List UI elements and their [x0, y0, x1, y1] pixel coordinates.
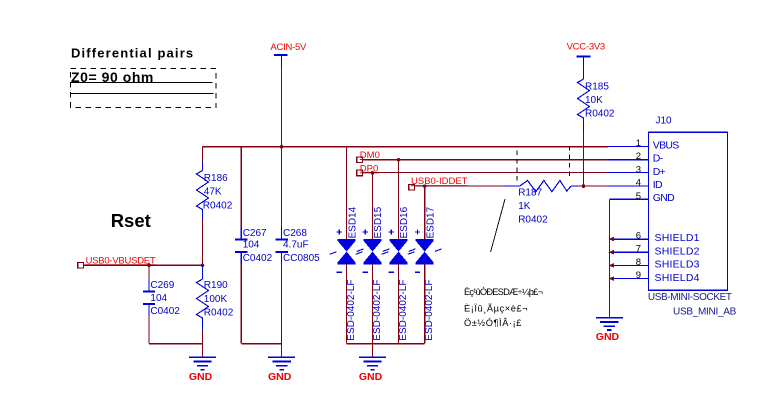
svg-text:104: 104 [243, 239, 260, 250]
ground G1 [189, 357, 216, 383]
ground G4 [596, 318, 623, 344]
svg-text:SHIELD4: SHIELD4 [655, 272, 700, 284]
legend label "Z0= 90 ohm" [71, 69, 154, 85]
junction C269 tee [147, 264, 151, 268]
capacitor C267 104 C0402 [235, 228, 273, 265]
diode ESD14 [330, 206, 364, 272]
wire VBUSDET line [84, 264, 203, 266]
svg-text:C0402: C0402 [243, 253, 273, 264]
svg-text:VBUS: VBUS [653, 139, 679, 151]
legend title "Differential pairs" [71, 45, 194, 60]
junction DM0/ESD16 [397, 158, 401, 162]
pin 8 stub [609, 264, 648, 266]
resistor R190 100K R0402 [197, 265, 234, 330]
svg-text:D+: D+ [653, 166, 666, 178]
differential-pair dashed mark 2 [569, 146, 571, 180]
wire R186 top [202, 147, 204, 161]
svg-text:USB0-VBUSDET: USB0-VBUSDET [86, 255, 156, 266]
svg-text:R190: R190 [204, 280, 228, 291]
svg-text:ESD-0402-LF: ESD-0402-LF [424, 280, 435, 341]
wire C269 drop [148, 265, 150, 279]
svg-text:ESD-0402-LF: ESD-0402-LF [346, 280, 357, 341]
pin 2 stub [608, 159, 649, 161]
svg-text:È¡Ïû¸Ãµç×è£¬: È¡Ïû¸Ãµç×è£¬ [464, 303, 528, 313]
wire C268 bottom [281, 264, 283, 344]
wire ESD16 bottom [398, 264, 400, 344]
pin 9 junction arrow [609, 276, 615, 281]
junction DP0/ESD15 [371, 171, 375, 175]
wire C268 drop [281, 147, 283, 228]
svg-text:4.7uF: 4.7uF [283, 239, 309, 250]
svg-text:CC0805: CC0805 [283, 253, 320, 264]
svg-text:ESD-0402-LF: ESD-0402-LF [398, 280, 409, 341]
svg-text:10K: 10K [585, 95, 603, 106]
svg-text:USB_MINI_AB: USB_MINI_AB [673, 307, 737, 318]
svg-text:R0402: R0402 [203, 200, 233, 211]
pin 6 stub [609, 238, 648, 240]
wire ESD16 top [398, 160, 400, 239]
wire GND stem ESD [372, 344, 374, 357]
wire R186 bottom [202, 213, 204, 220]
connector J10 body [649, 116, 728, 291]
svg-text:ESD15: ESD15 [373, 206, 384, 238]
wire ESD14 bottom [346, 264, 348, 344]
wire IDDET to R187 [415, 185, 504, 187]
svg-text:Differential pairs: Differential pairs [71, 45, 194, 60]
svg-text:100K: 100K [204, 294, 228, 305]
svg-text:4: 4 [636, 178, 641, 189]
svg-text:47K: 47K [204, 187, 222, 198]
svg-text:ESD14: ESD14 [347, 206, 358, 238]
wire DM0 / D- line [362, 159, 607, 161]
wire ESD14 top [346, 147, 348, 239]
wire C267 drop [240, 147, 242, 228]
pin 7 stub [609, 251, 648, 253]
svg-text:5: 5 [636, 191, 641, 202]
svg-text:Rset: Rset [111, 210, 151, 231]
wire R187 to pin4 [579, 185, 608, 187]
wire VBUS bus horizontal [203, 146, 608, 148]
power flag VCC-3V3 [567, 41, 605, 79]
svg-text:R0402: R0402 [585, 109, 615, 120]
svg-text:SHIELD3: SHIELD3 [655, 259, 700, 271]
junction VBUSDET/R chain [201, 264, 205, 268]
svg-text:6: 6 [636, 231, 641, 242]
wire ESD17 bottom [424, 264, 426, 344]
diode ESD16 [382, 206, 416, 272]
pin 1 stub [608, 146, 649, 148]
annotation leader line [491, 199, 505, 252]
svg-text:SHIELD2: SHIELD2 [655, 245, 700, 257]
wire ESD bottom bus [347, 343, 425, 345]
svg-text:7: 7 [636, 244, 641, 255]
resistor R185 10K R0402 [578, 79, 615, 122]
svg-text:ESD16: ESD16 [399, 206, 410, 238]
svg-text:8: 8 [636, 257, 641, 268]
svg-text:R185: R185 [585, 81, 609, 92]
port DP0 [357, 163, 379, 175]
pin 8 junction arrow [609, 263, 615, 268]
svg-text:USB-MINI-SOCKET: USB-MINI-SOCKET [648, 292, 732, 303]
legend dashed box [71, 69, 217, 108]
junction ACIN/VBUS [280, 145, 284, 149]
svg-text:GND: GND [268, 371, 292, 383]
svg-text:C0402: C0402 [150, 306, 180, 317]
legend trace line 2 [71, 92, 214, 94]
wire C267 bottom [240, 264, 242, 344]
svg-text:GND: GND [359, 371, 383, 383]
wire R190 bottom [202, 331, 204, 344]
svg-text:2: 2 [636, 151, 641, 162]
resistor R187 1K R0402 [504, 181, 579, 226]
wire R185 bottom blue stub [583, 122, 585, 131]
capacitor C268 4.7uF CC0805 [275, 228, 320, 265]
svg-text:Èç¹ûÓÐESDÆ÷¼þ£¬: Èç¹ûÓÐESDÆ÷¼þ£¬ [464, 287, 542, 297]
pin 9 stub [609, 278, 648, 280]
svg-text:ESD-0402-LF: ESD-0402-LF [372, 280, 383, 341]
svg-text:R187: R187 [518, 187, 542, 198]
diode ESD17 [408, 206, 442, 272]
diode ESD15 [356, 206, 390, 272]
svg-text:GND: GND [653, 192, 675, 204]
svg-text:9: 9 [636, 270, 641, 281]
port DM0 [357, 150, 380, 163]
capacitor C269 104 C0402 [143, 280, 181, 318]
pin 6 junction arrow [609, 237, 615, 242]
svg-text:C269: C269 [150, 280, 174, 291]
svg-text:3: 3 [636, 164, 641, 175]
ground G2 [268, 357, 295, 383]
resistor R186 47K R0402 [197, 171, 233, 213]
svg-text:C267: C267 [243, 228, 267, 239]
ground G3 [359, 357, 386, 383]
wire DP0 / D+ line [362, 172, 607, 174]
svg-text:ID: ID [653, 179, 663, 191]
junction R185/ID [582, 184, 586, 188]
wire bottom mid joining C267/C268 [241, 343, 281, 345]
wire ESD15 top [372, 173, 374, 239]
wire shield ground drop [608, 199, 610, 317]
svg-text:R0402: R0402 [204, 307, 234, 318]
wire R185 down to ID line [583, 131, 585, 186]
wire C269 bottom [148, 316, 150, 344]
svg-text:C268: C268 [283, 228, 307, 239]
svg-text:Ö±½Ó¶ÌÂ·¡£: Ö±½Ó¶ÌÂ·¡£ [464, 318, 522, 328]
wire ESD17 top [424, 186, 426, 239]
svg-text:1: 1 [636, 138, 641, 149]
wire ESD15 bottom [372, 264, 374, 344]
wire ACIN-5V vertical down to VBUS bus [281, 67, 283, 147]
big label Rset [111, 210, 151, 231]
wire GND stem mid [281, 344, 283, 357]
svg-text:GND: GND [189, 371, 213, 383]
pin 3 stub [608, 172, 649, 174]
legend trace line 1 [71, 82, 213, 84]
svg-text:VCC-3V3: VCC-3V3 [567, 41, 605, 52]
power flag ACIN-5V [270, 42, 307, 67]
svg-text:ESD17: ESD17 [425, 206, 436, 238]
svg-text:R0402: R0402 [518, 214, 548, 225]
port USB0-VBUSDET [78, 255, 156, 268]
svg-text:104: 104 [150, 293, 167, 304]
svg-text:J10: J10 [656, 116, 673, 127]
svg-text:R186: R186 [204, 173, 228, 184]
pin 5 stub [609, 198, 648, 200]
pin 4 stub [608, 185, 649, 187]
svg-text:ACIN-5V: ACIN-5V [270, 42, 307, 53]
pin 7 junction arrow [609, 250, 615, 255]
port USB0-IDDET [409, 176, 468, 190]
svg-text:1K: 1K [518, 201, 531, 212]
svg-text:D-: D- [653, 153, 664, 165]
wire bottom left joining C269/R190 [149, 343, 203, 345]
svg-text:SHIELD1: SHIELD1 [655, 232, 700, 244]
differential-pair dashed mark 1 [516, 151, 518, 185]
junction IDDET/ESD17 [423, 184, 427, 188]
svg-text:GND: GND [596, 331, 620, 343]
wire GND stem left [202, 344, 204, 357]
